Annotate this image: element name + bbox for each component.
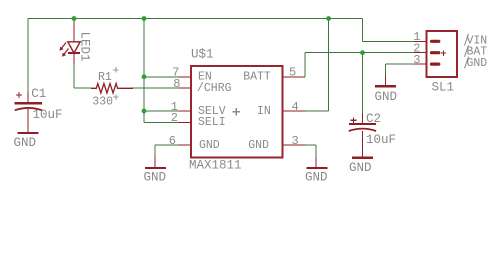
pin 8 stub [179,87,191,89]
pin 2 stub [179,121,191,123]
svg-text:GND: GND [349,161,372,175]
wire EN/SELV/SELI vertical [143,19,145,123]
wire C1 drop [27,19,29,93]
pin 1 stub [179,110,191,112]
svg-text:10uF: 10uF [33,108,63,122]
junction node VIN/EN [142,16,147,21]
wire pin5 BATT to BAT [304,53,306,77]
wire BAT drop to C2 [362,53,364,113]
SL1 pin3 stub [414,63,427,65]
svg-text:U$1: U$1 [191,48,214,62]
wire VIN to SL1 pin1 [362,19,364,42]
svg-text:MAX1811: MAX1811 [189,159,242,173]
SL1 pin1 stub [414,40,427,42]
svg-text:GND: GND [199,139,220,152]
origin cross R1 [113,67,118,72]
svg-text:2: 2 [171,111,178,125]
resistor R1 [91,84,133,94]
pin 6 stub [179,144,191,146]
svg-text:GND: GND [467,57,488,70]
wire pin6 GND [155,144,179,146]
svg-text:5: 5 [289,66,296,80]
ground under C2 [352,157,373,159]
pin 4 stub [283,110,306,112]
svg-text:C2: C2 [366,112,381,126]
capacitor C1 [15,92,42,132]
svg-text:3: 3 [413,53,420,67]
svg-text:SELI: SELI [198,116,226,129]
pin 3 stub [283,144,306,146]
SL1 pad 3 [432,62,439,65]
svg-text:6: 6 [169,134,176,148]
pin 5 stub [283,76,306,78]
svg-text:330: 330 [92,95,113,108]
wire LED to R1 [74,87,91,89]
svg-text:R1: R1 [98,71,112,84]
ground under pin6 [145,167,166,169]
SL1 pad 1 [432,40,439,43]
svg-text:/CHRG: /CHRG [197,82,232,95]
IC U$1 box [191,66,282,158]
wire pin2 SELI [144,121,179,123]
junction node BAT/C2 [360,50,365,55]
svg-text:GND: GND [375,90,398,104]
pin 7 stub [179,76,191,78]
junction node VIN/LED [72,16,77,21]
wire LED top segment [73,19,75,43]
wire C2 bottom to GND [362,131,364,158]
junction node EN vertical [142,74,147,79]
svg-text:4: 4 [292,100,299,114]
svg-text:IN: IN [257,105,271,118]
svg-text:GND: GND [248,139,269,152]
SL1 pad 2 [432,51,439,54]
origin cross 330 [113,94,118,99]
capacitor C2 [349,113,376,131]
svg-text:LED1: LED1 [78,32,92,62]
ground under C1 [18,132,39,134]
svg-text:10uF: 10uF [366,133,396,147]
svg-text:C1: C1 [31,87,46,101]
wire pin4 IN vertical [328,19,330,112]
svg-text:GND: GND [14,136,37,150]
LED LED1 [60,42,81,57]
wire pin1 SELV [144,110,179,112]
svg-text:GND: GND [144,171,167,185]
wire SL1 pin3 to GND [386,63,414,65]
wire R1 to pin8 [131,87,190,89]
wire VIN top horizontal [28,18,363,20]
origin cross U$1 [233,108,241,116]
svg-text:BATT: BATT [243,71,271,84]
ground under pin3 [306,167,327,169]
junction node SELV vertical [142,109,147,114]
svg-text:GND: GND [305,171,328,185]
SL1 pin2 stub [414,52,427,54]
svg-text:SL1: SL1 [432,81,455,95]
svg-text:3: 3 [292,134,299,148]
ground under SL1 pin3 [375,85,396,87]
junction node VIN/IN [326,16,331,21]
wire pin7 EN [144,76,179,78]
svg-text:8: 8 [173,77,180,91]
origin cross SL1 [441,50,446,55]
wire LED bottom segment [73,53,75,88]
connector SL1 box [427,31,458,77]
wire pin3 IC GND [305,144,316,146]
